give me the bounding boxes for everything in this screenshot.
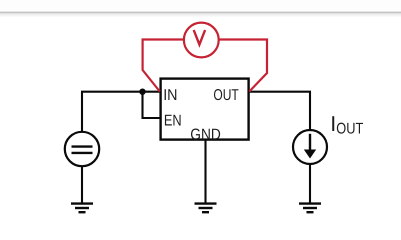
wire: VIN source to IN pin bbox=[82, 92, 160, 133]
ground (center) bbox=[195, 204, 217, 213]
regulator U1 bbox=[161, 79, 249, 140]
wire: EN branch bbox=[143, 92, 161, 118]
svg-text:IN: IN bbox=[163, 87, 177, 104]
label IOUT bbox=[330, 112, 363, 137]
svg-text:OUT: OUT bbox=[213, 87, 239, 104]
voltage source VIN bbox=[65, 132, 99, 166]
wire: OUT pin to load bbox=[249, 92, 310, 130]
wire: load to ground bbox=[309, 164, 311, 204]
ground (right) bbox=[299, 204, 321, 213]
svg-text:OUT: OUT bbox=[336, 121, 363, 138]
voltmeter bbox=[184, 23, 219, 58]
ground (left) bbox=[71, 204, 93, 213]
red sense wire (left, voltmeter to IN) bbox=[143, 40, 184, 92]
svg-text:EN: EN bbox=[164, 113, 182, 130]
wire: VIN source to ground bbox=[81, 166, 83, 204]
red sense wire (right, voltmeter to OUT) bbox=[219, 40, 267, 92]
junction node (IN/EN) bbox=[139, 89, 145, 95]
wire: GND pin to ground bbox=[204, 140, 206, 204]
current source IOUT bbox=[293, 130, 327, 164]
